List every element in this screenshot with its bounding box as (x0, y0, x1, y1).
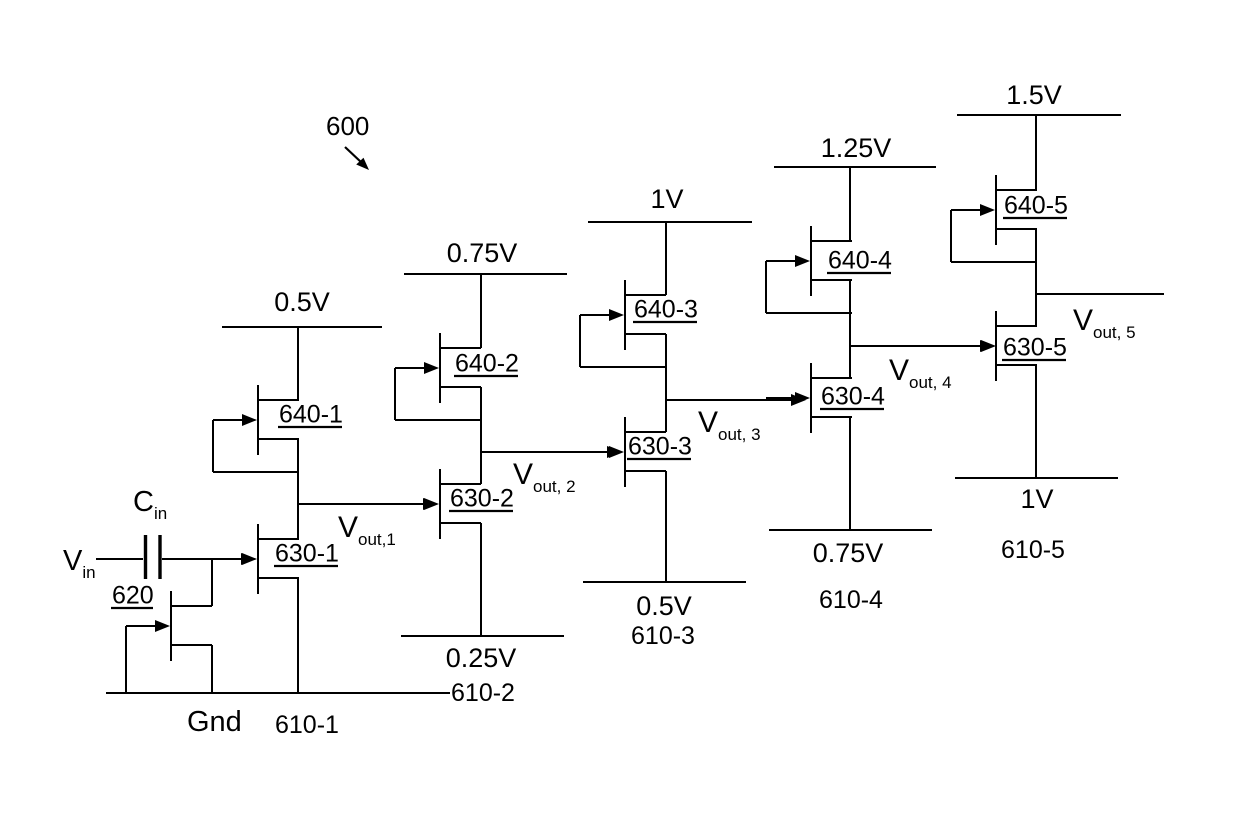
rail 1V (stage 5 return) (955, 477, 1118, 479)
svg-text:0.75V: 0.75V (447, 238, 518, 268)
svg-text:Vout, 2: Vout, 2 (513, 458, 576, 496)
node Vout,5 output wire (1036, 293, 1164, 295)
wire 640-2 source to node Vout2 (480, 387, 482, 484)
node Vout,3 wire to 630-4 gate (666, 399, 792, 401)
transistor 630-3 (580, 417, 666, 487)
wire 630-4 source to 0.75V rail (849, 417, 851, 530)
svg-text:610-3: 610-3 (631, 622, 695, 650)
svg-text:Vout, 3: Vout, 3 (698, 406, 761, 444)
wire 620 source to ground rail (211, 645, 213, 693)
node Vout,2 wire to 630-3 gate (481, 451, 608, 453)
svg-text:630-2: 630-2 (450, 485, 514, 513)
svg-text:640-3: 640-3 (634, 296, 698, 324)
svg-text:1V: 1V (1020, 484, 1053, 514)
power rail 0.5V (stage 1 supply) (222, 326, 382, 328)
svg-text:630-4: 630-4 (821, 383, 885, 411)
rail 0.25V (stage 2 return) (401, 635, 564, 637)
wire capacitor to 630-1 gate (162, 558, 244, 560)
svg-text:0.5V: 0.5V (274, 287, 330, 317)
svg-text:610-5: 610-5 (1001, 536, 1065, 564)
wire rail-to-640-1 drain (297, 327, 299, 400)
wire 630-2 source to 0.25V rail (480, 523, 482, 636)
svg-text:640-1: 640-1 (279, 401, 343, 429)
node Vout,4 wire to 630-5 gate (850, 345, 982, 347)
svg-text:Vout,1: Vout,1 (338, 511, 396, 549)
wire 640-1 source to node Vout1 (297, 439, 299, 539)
power rail 0.75V (stage 2 supply) (404, 273, 567, 275)
rail 0.75V (stage 4 return) (769, 529, 932, 531)
wire 630-5 source to 1V rail (1035, 365, 1037, 478)
transistor 640-1 (diode-connected) (213, 385, 299, 472)
transistor 620 (bias, diode to ground) (126, 591, 212, 693)
svg-text:Vout, 5: Vout, 5 (1073, 304, 1136, 342)
wire rail-to-640-5 drain (1035, 115, 1037, 190)
svg-text:0.25V: 0.25V (446, 643, 517, 673)
svg-text:640-5: 640-5 (1004, 192, 1068, 220)
power rail 1.25V (stage 4 supply) (774, 166, 936, 168)
svg-text:610-2: 610-2 (451, 679, 515, 707)
capacitor C_in (144, 535, 147, 579)
wire Vin to capacitor (96, 558, 143, 560)
transistor 630-1 (213, 524, 299, 594)
wire 630-1 source to ground rail (297, 578, 299, 693)
svg-text:620: 620 (112, 582, 154, 610)
svg-text:600: 600 (326, 111, 369, 141)
svg-text:0.75V: 0.75V (813, 538, 884, 568)
transistor 640-5 (diode-connected) (951, 175, 1037, 262)
svg-text:Gnd: Gnd (187, 706, 242, 738)
transistor 630-4 (766, 363, 852, 433)
wire rail-to-640-3 drain (665, 222, 667, 295)
wire 640-5 source to node Vout5 (1035, 229, 1037, 326)
transistor 630-2 (395, 469, 481, 539)
power rail 1V (stage 3 supply) (588, 221, 752, 223)
svg-text:1.25V: 1.25V (821, 133, 892, 163)
svg-text:640-4: 640-4 (828, 247, 892, 275)
svg-text:610-4: 610-4 (819, 586, 883, 614)
junction wire down to 620 drain (211, 559, 213, 606)
transistor 640-3 (diode-connected) (580, 280, 666, 367)
svg-text:630-3: 630-3 (628, 433, 692, 461)
transistor 640-2 (diode-connected) (395, 333, 481, 420)
node Vout,1 wire to 630-2 gate (298, 503, 424, 505)
wire rail-to-640-4 drain (849, 167, 851, 241)
wire 630-3 source to 0.5V rail (665, 471, 667, 582)
wire 640-3 source to node Vout3 (665, 334, 667, 432)
svg-text:630-5: 630-5 (1003, 334, 1067, 362)
rail 0.5V (stage 3 return) (583, 581, 746, 583)
svg-text:1V: 1V (650, 184, 683, 214)
pointer arrow for 600 (345, 147, 362, 163)
svg-text:Vout, 4: Vout, 4 (889, 354, 952, 392)
svg-text:630-1: 630-1 (275, 540, 339, 568)
svg-text:1.5V: 1.5V (1006, 80, 1062, 110)
transistor 630-5 (951, 311, 1037, 381)
wire rail-to-640-2 drain (480, 274, 482, 348)
wire 640-4 source to node Vout4 (849, 280, 851, 378)
ground rail Gnd (106, 692, 450, 694)
svg-text:Vin: Vin (63, 545, 96, 582)
svg-text:640-2: 640-2 (455, 350, 519, 378)
power rail 1.5V (stage 5 supply) (957, 114, 1121, 116)
svg-text:Cin: Cin (133, 486, 167, 523)
svg-text:0.5V: 0.5V (636, 591, 692, 621)
svg-text:610-1: 610-1 (275, 711, 339, 739)
transistor 640-4 (diode-connected) (766, 226, 852, 313)
